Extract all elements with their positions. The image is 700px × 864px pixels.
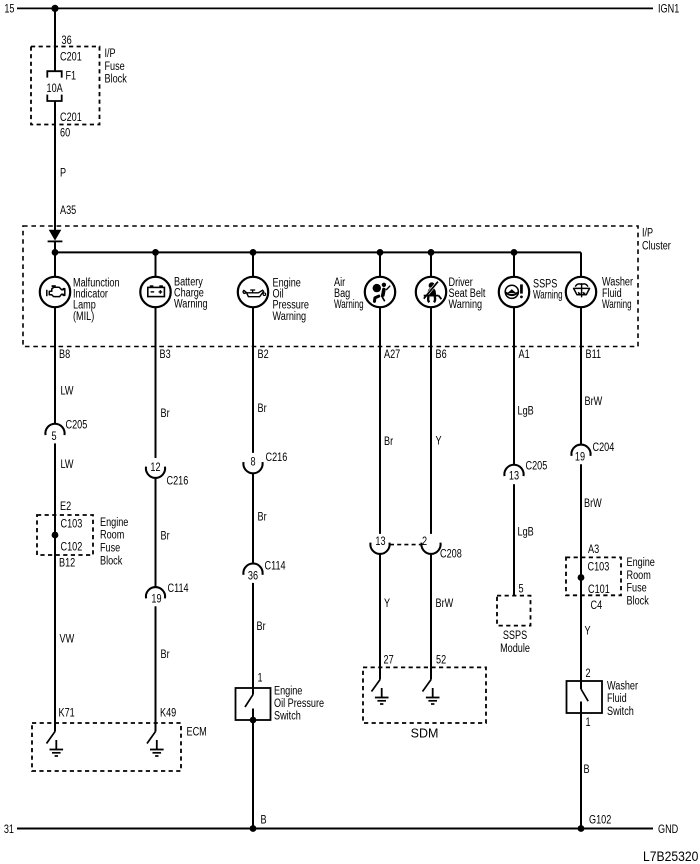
svg-text:Room: Room — [100, 529, 124, 543]
svg-text:A27: A27 — [384, 348, 400, 362]
svg-text:C201: C201 — [60, 111, 82, 125]
svg-text:13: 13 — [375, 535, 385, 549]
svg-text:Br: Br — [258, 510, 267, 524]
svg-text:Warning: Warning — [174, 298, 208, 312]
svg-text:B: B — [261, 813, 267, 827]
svg-text:Br: Br — [258, 402, 267, 416]
svg-text:C204: C204 — [593, 441, 615, 455]
svg-text:19: 19 — [575, 450, 585, 464]
svg-text:SSPS: SSPS — [503, 629, 527, 643]
svg-text:13: 13 — [509, 469, 519, 483]
svg-text:E2: E2 — [60, 500, 71, 514]
svg-text:B11: B11 — [586, 348, 602, 362]
svg-text:C103: C103 — [588, 560, 610, 574]
svg-text:Warning: Warning — [334, 299, 364, 312]
svg-text:C216: C216 — [266, 451, 288, 465]
svg-text:19: 19 — [151, 592, 161, 606]
svg-text:Warning: Warning — [602, 299, 632, 312]
svg-text:Fuse: Fuse — [100, 541, 120, 555]
svg-text:F1: F1 — [66, 69, 77, 83]
svg-text:BrW: BrW — [585, 395, 603, 409]
svg-text:Switch: Switch — [607, 705, 634, 719]
svg-text:2: 2 — [586, 667, 591, 681]
svg-text:36: 36 — [62, 34, 72, 48]
svg-text:C4: C4 — [591, 599, 603, 613]
svg-text:15: 15 — [4, 2, 14, 16]
svg-text:I/P: I/P — [105, 47, 116, 61]
svg-text:Br: Br — [161, 529, 170, 543]
svg-text:B2: B2 — [258, 348, 269, 362]
svg-text:BrW: BrW — [436, 597, 454, 611]
svg-text:C205: C205 — [526, 459, 548, 473]
svg-text:Br: Br — [161, 648, 170, 662]
svg-text:B12: B12 — [59, 556, 75, 570]
svg-text:Block: Block — [100, 554, 123, 568]
svg-text:Br: Br — [384, 435, 393, 449]
svg-text:LgB: LgB — [518, 525, 534, 539]
svg-text:A35: A35 — [60, 204, 76, 218]
svg-text:Fuse: Fuse — [105, 60, 125, 74]
svg-text:SDM: SDM — [411, 726, 439, 740]
svg-text:BrW: BrW — [584, 497, 602, 511]
svg-text:LgB: LgB — [518, 404, 534, 418]
svg-text:60: 60 — [60, 126, 70, 140]
svg-text:B6: B6 — [436, 348, 447, 362]
svg-text:Warning: Warning — [449, 298, 483, 312]
svg-text:B: B — [584, 763, 590, 777]
svg-text:Switch: Switch — [274, 709, 301, 723]
svg-text:Engine: Engine — [274, 684, 302, 698]
svg-text:27: 27 — [384, 653, 394, 667]
svg-text:B8: B8 — [59, 348, 70, 362]
svg-text:Fuse: Fuse — [627, 581, 647, 595]
svg-text:C201: C201 — [60, 50, 82, 64]
svg-text:Br: Br — [161, 407, 170, 421]
svg-text:5: 5 — [519, 582, 524, 596]
svg-text:C216: C216 — [167, 474, 189, 488]
svg-text:12: 12 — [150, 461, 160, 475]
svg-text:G102: G102 — [589, 813, 611, 827]
svg-text:C208: C208 — [440, 547, 462, 561]
svg-text:LW: LW — [61, 458, 74, 472]
svg-text:Oil Pressure: Oil Pressure — [274, 697, 324, 711]
svg-text:10A: 10A — [47, 82, 64, 96]
svg-text:C205: C205 — [66, 418, 88, 432]
svg-text:Washer: Washer — [607, 679, 638, 693]
svg-text:8: 8 — [250, 456, 255, 470]
svg-text:Engine: Engine — [100, 516, 128, 530]
svg-text:1: 1 — [586, 716, 591, 730]
svg-text:C101: C101 — [588, 583, 610, 597]
svg-text:P: P — [60, 166, 66, 180]
svg-text:C114: C114 — [265, 560, 286, 574]
svg-text:1: 1 — [258, 671, 263, 685]
svg-text:2: 2 — [422, 535, 427, 549]
svg-text:C114: C114 — [168, 582, 189, 596]
svg-text:Engine: Engine — [627, 556, 655, 570]
svg-text:K49: K49 — [160, 706, 176, 720]
svg-text:K71: K71 — [59, 706, 75, 720]
svg-text:52: 52 — [436, 653, 446, 667]
svg-text:C103: C103 — [61, 517, 83, 531]
svg-text:VW: VW — [60, 632, 75, 646]
svg-text:I/P: I/P — [642, 226, 653, 240]
svg-text:Y: Y — [585, 625, 591, 639]
svg-text:Br: Br — [257, 620, 266, 634]
svg-text:ECM: ECM — [187, 725, 207, 739]
svg-text:Warning: Warning — [533, 289, 563, 302]
svg-text:B3: B3 — [160, 348, 171, 362]
svg-text:C102: C102 — [61, 540, 83, 554]
svg-text:Block: Block — [627, 594, 650, 608]
svg-text:L7B25320: L7B25320 — [643, 848, 698, 864]
svg-text:5: 5 — [51, 430, 56, 444]
svg-text:Block: Block — [105, 72, 128, 86]
svg-text:Cluster: Cluster — [642, 239, 671, 253]
svg-text:GND: GND — [658, 823, 679, 837]
svg-text:LW: LW — [61, 384, 74, 398]
svg-text:36: 36 — [248, 570, 258, 584]
svg-text:Y: Y — [436, 434, 442, 448]
svg-text:Fluid: Fluid — [607, 692, 627, 706]
svg-text:Warning: Warning — [273, 310, 307, 324]
svg-text:31: 31 — [4, 823, 14, 837]
svg-text:Room: Room — [627, 569, 651, 583]
svg-text:Module: Module — [500, 642, 530, 656]
svg-text:(MIL): (MIL) — [73, 310, 94, 324]
svg-text:IGN1: IGN1 — [658, 2, 679, 16]
svg-text:A3: A3 — [588, 543, 599, 557]
svg-text:A1: A1 — [519, 348, 530, 362]
svg-text:Y: Y — [384, 597, 390, 611]
